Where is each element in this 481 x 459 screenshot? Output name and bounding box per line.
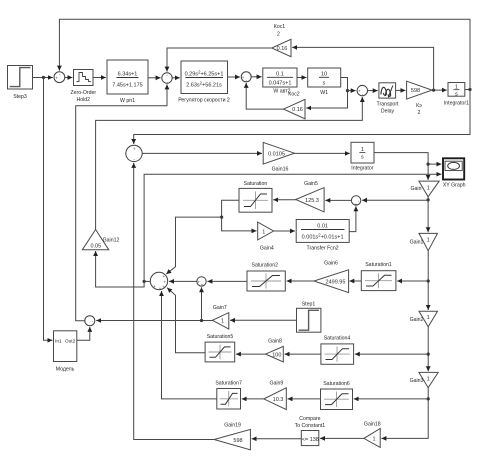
subsystem block Model (Модель) [54,331,77,373]
gain Gain3 (1, down) [410,372,439,387]
gain Koc2 (0.16 left pointing) [284,92,306,119]
wire Step3 junction down to Model In1 [44,78,53,341]
block Saturation2 [247,262,285,291]
svg-text:Step3: Step3 [13,94,27,100]
svg-text:1: 1 [427,186,430,192]
svg-text:Transfer Fcn2: Transfer Fcn2 [307,246,339,252]
wire junction left to sum F [362,199,428,201]
wire junction to Saturation6 [354,398,429,400]
svg-text:Модель: Модель [56,367,75,373]
svg-text:Integrator1: Integrator1 [444,101,469,107]
svg-text:Saturation2: Saturation2 [252,262,279,268]
gain Gain19 (598 left) [214,423,250,450]
svg-text:Saturation: Saturation [244,181,268,187]
gain Gain5 (125.3 left) [296,181,324,212]
node junction at Ke output [432,89,435,92]
svg-text:+: + [201,283,204,288]
sum D (before Transport Delay) [357,85,367,96]
wire sum A to Zero-Order Hold2 [65,77,73,79]
node junction W1 output [346,89,349,92]
svg-text:1: 1 [427,238,430,244]
svg-text:Saturation7: Saturation7 [215,381,242,387]
wire Gain2 down to Gain3 [427,327,429,371]
svg-text:Регулятор скорости 2: Регулятор скорости 2 [178,98,230,104]
svg-text:+: + [55,75,58,80]
wire regulator to sum C [228,76,241,78]
svg-text:1: 1 [427,376,430,382]
node junction at x429 y164 [427,163,430,166]
block Saturation1 [361,262,396,291]
svg-text:Кэ: Кэ [416,103,422,109]
svg-text:0.05: 0.05 [90,243,101,249]
svg-text:10.3: 10.3 [273,397,284,403]
block Saturation5 [205,334,235,362]
wire Transfer Fcn2 to sum F bottom [349,206,356,231]
svg-text:Gain4: Gain4 [260,246,274,252]
svg-text:Saturation6: Saturation6 [323,381,350,387]
sum I (left small sum) [85,316,95,328]
wire tap to big sum NE port [166,217,221,274]
block Saturation4 [321,336,354,365]
wire Gain6 to Saturation2 [287,280,315,282]
svg-text:10: 10 [321,72,327,78]
wire sum B to speed regulator [172,77,180,79]
wire Gain9 to Saturation7 [242,398,264,400]
svg-text:Integrator: Integrator [351,166,373,172]
svg-text:Кос1: Кос1 [274,24,286,30]
wire Gain4 to Transfer Fcn2 [274,230,295,232]
wire Saturation4 to Gain8 [285,353,321,355]
wire Saturation7 out to big sum bottom [162,291,217,399]
svg-text:Gain: Gain [411,186,422,192]
wire Koc1 out to sum B top [167,48,272,72]
svg-text:0.047s+1: 0.047s+1 [269,81,292,87]
svg-text:+: + [159,286,162,291]
gain Gain6 (2499.95 left) [314,261,349,293]
svg-text:0.16: 0.16 [277,46,288,52]
node junction on Gain7 line [200,319,203,322]
node junction at y354 [427,353,430,356]
wire junction up to sum H bottom [201,287,203,320]
svg-text:W1: W1 [320,90,328,96]
block Saturation [239,181,272,212]
svg-text:Кос2: Кос2 [288,92,300,98]
svg-text:To Constant1: To Constant1 [295,423,326,429]
svg-text:+: + [242,75,245,80]
wire sum F to Gain5 [325,199,351,201]
node junction on saturation output [220,216,223,219]
node junction below Gain [427,198,430,201]
wire Gain3 down to Gain18 [381,388,428,439]
transfer fcn W rp1 [107,60,148,104]
svg-text:1: 1 [221,319,224,325]
svg-text:+: + [153,284,156,289]
svg-text:Gain12: Gain12 [103,238,120,244]
sum C [241,72,251,83]
svg-text:XY Graph: XY Graph [443,183,466,189]
wire outer feedback top to sum A [59,19,470,89]
transfer fcn speed regulator (Регулятор скорости 2) [178,61,230,104]
gain Ke (598) [407,81,432,116]
svg-text:Step1: Step1 [302,301,316,307]
wire junction up to Koc1 gain [292,47,433,90]
node junction net D [143,280,146,283]
wire Saturation6 to Gain9 [288,398,321,400]
wire sum C to W avt2 [251,76,261,78]
wire Gain5 to Saturation [273,199,296,201]
wire sum I output up to sum B bottom [76,84,167,320]
block Zero-Order Hold2 [70,70,96,104]
wire Transport Delay to Ke gain [396,89,406,91]
svg-text:1: 1 [372,437,375,443]
svg-text:Hold2: Hold2 [77,97,91,103]
gain Koc1 (0.16 left pointing) [272,24,291,57]
node junction at y281 [427,279,430,282]
wire Saturation2 out to sum H [207,280,247,282]
svg-text:0.16: 0.16 [292,107,303,113]
wire Gain1 down to Gain2 [427,251,429,310]
block Transport Delay [376,83,399,115]
gain Gain7 (1 left) [212,305,228,329]
svg-text:Gain2: Gain2 [410,317,424,323]
wire Gain7 out to left small sum [96,320,212,322]
svg-text:Gain6: Gain6 [324,261,338,267]
wire Gain down to Gain1 [427,197,429,232]
svg-text:2: 2 [277,32,280,38]
gain Gain2 (1, down) [410,311,438,327]
wire junction to sum D [348,90,356,92]
wire junction to Saturation1 [397,280,428,282]
sum A (input summing) [54,72,65,83]
wire Integrator1 output with junction [465,89,470,91]
svg-text:Gain3: Gain3 [410,378,424,384]
node junction after Step3 [42,76,45,79]
svg-text:+: + [163,274,166,279]
svg-text:Gain19: Gain19 [224,423,241,429]
node junction Integrator1 out [468,88,471,91]
wire W avt2 to W1 [297,77,307,79]
wire Saturation out to Gain4 with tap [222,200,257,231]
svg-text:+: + [355,202,358,207]
sum F [351,196,360,207]
block Saturation6 [321,381,353,410]
svg-text:+: + [133,147,136,152]
wire Ke out to Integrator1 [432,89,447,91]
node junction at y399 [427,397,430,400]
scope XY Graph [443,158,466,188]
svg-text:Transport: Transport [376,102,399,108]
wire W rp1 to sum B [148,77,161,79]
wire sum D to Transport Delay [368,90,378,92]
svg-text:In1: In1 [55,338,62,344]
svg-text:Gain16: Gain16 [272,167,289,173]
wire Compare to Gain19 [252,438,302,440]
wire Gain18 to Compare To Constant1 [320,437,364,439]
svg-text:s: s [323,81,326,87]
svg-text:7.45s+1.175: 7.45s+1.175 [112,83,142,89]
wire feedback down to sum E top [134,90,470,145]
svg-text:Zero-Order: Zero-Order [70,90,96,96]
svg-text:1: 1 [262,229,265,235]
svg-text:125.3: 125.3 [305,198,319,204]
gain Gain12 (0.05 up) [82,230,119,250]
block Integrator [351,142,374,171]
svg-text:Saturation5: Saturation5 [207,334,234,340]
svg-text:s: s [455,91,458,97]
svg-text:Gain8: Gain8 [268,339,282,345]
gain Gain4 (1) [258,222,274,251]
wire Gain12 output up and right to sum D bottom [96,97,363,230]
wire sum H out to big sum right port [169,280,197,282]
svg-text:+: + [358,89,361,94]
svg-text:0.0105: 0.0105 [268,152,285,158]
svg-text:0.01: 0.01 [317,224,328,230]
gain Gain9 (10.3 left) [264,381,287,410]
transfer fcn W1 [308,68,341,96]
svg-text:<= 138: <= 138 [302,437,319,443]
svg-text:s: s [361,154,364,160]
wire Koc2 out to sum C bottom [246,83,283,109]
wire net D down to Gain12 input [96,251,145,287]
svg-text:598: 598 [233,438,242,444]
block Saturation7 [215,381,242,410]
wire junction to XY Graph in1 [428,163,441,165]
wire ZOH2 to W rp1 [93,77,106,79]
step source Step3 [8,66,33,101]
wire W1 output to sum D and down to Koc2 gain [306,78,347,109]
svg-text:Gain18: Gain18 [364,422,381,428]
svg-text:0.1: 0.1 [276,72,284,78]
svg-text:Saturation4: Saturation4 [324,336,351,342]
sum G (big summing junction) [150,272,167,291]
svg-text:Out2: Out2 [65,338,76,344]
svg-text:1: 1 [427,315,430,321]
svg-text:0.001s2+0.01s+1: 0.001s2+0.01s+1 [302,233,344,241]
svg-text:+: + [162,285,165,290]
wire Step3 to sum A [33,77,53,79]
wire Model Out2 to sum I bottom [77,327,90,340]
wire Saturation5 out to big sum SE port [167,288,205,353]
svg-text:6.34s+1: 6.34s+1 [118,72,138,78]
gain Gain18 (1 left) [364,422,381,448]
wire Gain19 out up to sum E bottom [134,163,214,440]
transfer fcn Transfer Fcn2 [296,220,349,252]
svg-text:Gain1: Gain1 [410,240,424,246]
sum H (small, right of big sum) [197,277,206,288]
gain Gain1 (1, down) [410,233,438,250]
wire Saturation1 to Gain6 [349,280,361,282]
step source Step1 [297,301,321,332]
wire Gain16 to Integrator [295,152,350,154]
svg-text:+: + [164,279,167,284]
wire Gain8 to Saturation5 [236,353,266,355]
sum B [162,73,172,85]
block Compare To Constant1 [295,416,326,446]
svg-text:Gain9: Gain9 [269,381,283,387]
wire sum E to Gain16 [142,152,262,154]
block Integrator1 [444,83,469,107]
svg-text:0.29s2+6.25s+1: 0.29s2+6.25s+1 [185,70,224,78]
wire Step1 out to Gain7 [230,319,297,321]
svg-text:Gain5: Gain5 [304,181,318,187]
svg-text:2: 2 [418,110,421,116]
svg-text:100: 100 [272,352,281,358]
gain Gain16 (0.0105) [263,142,294,172]
sum E (position error) [126,145,142,162]
wire big sum output to net D (XY in2 and Gain12) [144,280,150,282]
gain Gain (1, down) [411,181,440,197]
svg-text:2499.95: 2499.95 [326,279,346,285]
svg-text:W рп1: W рп1 [120,98,135,104]
svg-text:Delay: Delay [381,109,395,115]
svg-text:2.63s2+56.21s: 2.63s2+56.21s [186,81,222,89]
transfer fcn W avt2 [263,68,297,95]
wire Integrator out to XY Graph in1 / Gain chain [374,153,428,180]
svg-text:Saturation1: Saturation1 [365,262,392,268]
svg-text:Compare: Compare [299,416,320,422]
wire net D up to XY Graph in2 [144,174,441,281]
svg-text:598: 598 [411,88,420,94]
wire junction to Saturation4 [355,353,428,355]
gain Gain8 (100 left) [266,339,284,362]
svg-text:Gain7: Gain7 [213,305,227,311]
